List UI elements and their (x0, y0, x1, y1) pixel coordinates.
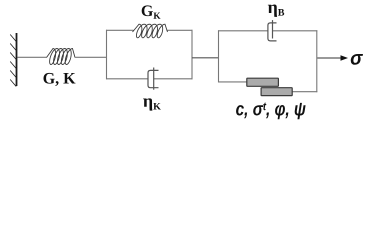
Bingham bottom-left wire (218, 81, 247, 83)
spring G_K (133, 24, 168, 38)
label G, K (43, 73, 75, 86)
wire wall to spring (18, 56, 47, 58)
Kelvin top wire right (167, 29, 193, 31)
wall (10, 33, 16, 87)
Bingham bottom-right wire (292, 91, 317, 93)
wire spring to Kelvin box (75, 56, 107, 58)
Bingham box right edge (316, 30, 318, 92)
dashpot eta_K piston (153, 68, 155, 90)
label G_K (142, 5, 161, 18)
label c, sigma^t, phi, psi (236, 103, 306, 120)
dashpot eta_K cup (148, 68, 159, 90)
label eta_B (268, 5, 284, 17)
Kelvin box left edge (106, 30, 193, 80)
output wire (317, 57, 342, 59)
label eta_K (143, 98, 161, 110)
slider bottom plate (261, 88, 292, 96)
slider top plate (247, 78, 279, 86)
spring G,K (47, 49, 76, 65)
Bingham box left edge (218, 30, 317, 92)
Kelvin box right edge (191, 30, 193, 80)
dashpot eta_B cup (268, 20, 277, 41)
arrowhead (341, 55, 349, 61)
Kelvin bottom wire left (106, 78, 148, 80)
Bingham top wire right (273, 30, 318, 32)
Kelvin top wire left (106, 29, 134, 31)
wire Kelvin to Bingham box (192, 57, 219, 59)
label sigma (351, 54, 363, 65)
dashpot eta_B piston (272, 20, 274, 38)
Bingham top wire left (218, 30, 268, 32)
Kelvin bottom wire right (154, 78, 193, 80)
